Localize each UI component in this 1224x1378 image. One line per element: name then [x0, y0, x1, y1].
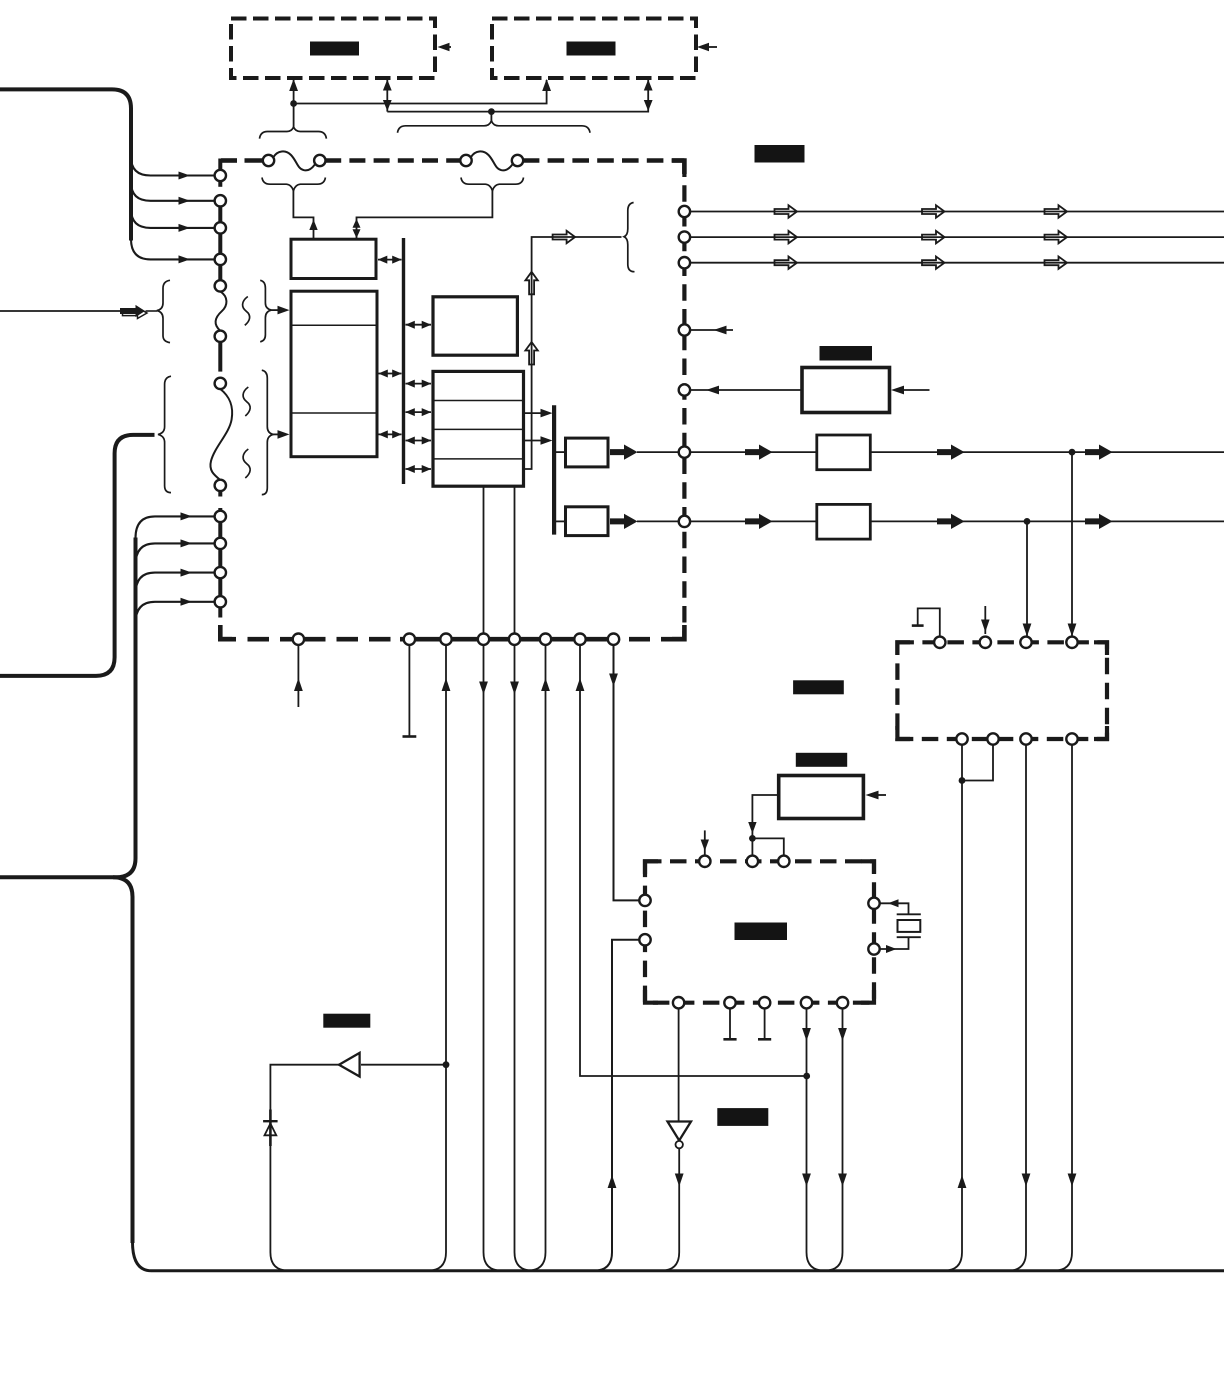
- module pin L10: [215, 538, 226, 549]
- wire M2 to output bar row3: [524, 440, 548, 442]
- hollow arrows on output line 3: [775, 257, 798, 269]
- D2 bottom pin1: [956, 733, 967, 744]
- D2 top pin2: [980, 637, 991, 648]
- connector pair 1 S-link: [274, 151, 315, 170]
- block M2: [433, 371, 524, 486]
- label D3 (redacted): [735, 923, 788, 941]
- stub arrow into R4 right side: [874, 794, 886, 796]
- connector pair2 pin a: [460, 155, 471, 166]
- dbl arrow bus-M2 row2: [406, 411, 432, 413]
- stub under module pin1: [297, 645, 299, 707]
- output line 1 (top): [690, 211, 1224, 213]
- module pin R4: [679, 324, 690, 335]
- wire stem up into BOX1: [293, 80, 295, 128]
- module pin B7: [574, 634, 585, 645]
- output bar: [552, 405, 556, 534]
- harness arrow into pin 3: [131, 209, 214, 228]
- big box bottom-right corner: [672, 625, 684, 639]
- thick arrow on line B after tap: [1085, 514, 1113, 529]
- wire pair2 to block S1: [357, 190, 493, 239]
- squiggle mark 1: [243, 297, 250, 326]
- squiggle mark 3: [243, 449, 250, 478]
- D2 top pin4: [1066, 637, 1077, 648]
- brace under connector pair 2: [461, 178, 524, 191]
- D3 corner overlays: [645, 861, 658, 874]
- dashed block D3: [645, 861, 874, 1002]
- wire right pin 5 to R1: [690, 389, 802, 391]
- wire A (node between BOX1 and BOX2): [294, 80, 547, 104]
- label group outputs (redacted): [755, 145, 805, 163]
- junction dot D2 pin1 wire: [959, 777, 966, 784]
- D3 bottom pin2: [724, 997, 735, 1008]
- block R2: [817, 435, 871, 470]
- branch to D3 top pin2: [751, 838, 753, 856]
- label R4 (redacted): [796, 753, 847, 767]
- ground stub D3 bottom pin2: [729, 1008, 731, 1038]
- label buffer (redacted): [323, 1014, 370, 1028]
- thick arrow on line A after R2: [937, 445, 965, 460]
- label inverter (redacted): [717, 1108, 768, 1126]
- label BOX2 (redacted): [567, 42, 616, 56]
- output line 3: [690, 262, 1224, 264]
- stub arrow into R1 right side: [904, 389, 930, 391]
- wire B: [387, 80, 648, 112]
- D3 bottom pin4: [801, 997, 812, 1008]
- arrowhead up into junction (pair1 feed): [309, 220, 317, 231]
- brace R3 (splits riser to 3 outputs): [624, 203, 634, 272]
- harness arrow into pin 1: [131, 157, 214, 176]
- module pin R6: [679, 446, 690, 457]
- hollow up arrow 2 on M2 riser: [525, 342, 537, 365]
- sense line pin7 to D3 drop: [580, 645, 807, 1076]
- junction dot line A: [1069, 449, 1076, 456]
- junction dot buffer tap: [443, 1061, 450, 1068]
- arrow brace R1 into S2: [271, 309, 279, 311]
- M2 divider 1: [433, 400, 524, 402]
- diode D1 through-wire: [269, 1110, 272, 1147]
- wire M2 up to output brace: [524, 237, 622, 469]
- wire module pin8 down to D3 left pin1: [614, 645, 640, 900]
- module pin R7: [679, 516, 690, 527]
- block T2: [566, 507, 609, 536]
- block T1: [566, 438, 609, 467]
- dbl arrow S2-bus upper: [379, 373, 402, 375]
- double arrow wire B to BOX2: [644, 80, 653, 91]
- wire D2 bottom pin4 to rail: [1054, 745, 1073, 1271]
- module pin L9: [215, 511, 226, 522]
- dashed block D2: [897, 642, 1107, 739]
- drop wire line B to D2: [1026, 521, 1028, 636]
- harness trunk W2 (branch to bottom rail): [113, 877, 133, 1243]
- module pin B6: [540, 634, 551, 645]
- feed wire to brace L2 (off-page lower left): [0, 435, 155, 676]
- D2 bottom pin2: [987, 733, 998, 744]
- crystal X1 wiring bottom: [880, 937, 909, 949]
- harness arrow into pin 9: [136, 516, 215, 538]
- wire module pin6 to rail: [527, 645, 546, 1271]
- junction dot node B: [488, 108, 495, 115]
- big box bottom-left corner: [220, 625, 232, 639]
- cable wave between pins 5-6: [216, 291, 227, 330]
- D3 bottom pin3: [759, 997, 770, 1008]
- dbl arrow bus-M2 row4: [406, 468, 432, 470]
- module pin B1: [293, 634, 304, 645]
- junction dot sense line: [803, 1073, 810, 1080]
- stem node B to brace: [490, 112, 492, 122]
- arrowhead up into BOX1: [289, 79, 298, 91]
- inverter bubble: [676, 1141, 683, 1148]
- label BOX1 (redacted): [310, 42, 359, 56]
- D3 left pin1: [639, 895, 650, 906]
- module pin L12: [215, 596, 226, 607]
- stub arrow into D2 pin 2: [984, 606, 986, 634]
- module pin R5: [679, 384, 690, 395]
- wire R4 out to D3 pins: [752, 795, 778, 838]
- module pin R3: [679, 257, 690, 268]
- dbl arrow bus-M2 row1: [406, 383, 432, 385]
- M2 divider 2: [433, 428, 524, 430]
- arrow brace R2 into S2: [273, 433, 279, 435]
- block M1: [433, 297, 517, 355]
- branch to D3 top pin3: [752, 838, 783, 856]
- crystal X1 wiring top: [880, 903, 909, 914]
- brace L1 (groups pins 5-6): [157, 280, 170, 342]
- buffer U1 (triangle): [339, 1053, 360, 1077]
- stub arrow into D3 top pin1: [704, 830, 706, 856]
- connector pair2 pin b: [512, 155, 523, 166]
- module pin L3: [215, 222, 226, 233]
- level flag on D2 pin 1: [918, 608, 940, 637]
- thick arrow on line B after pin: [745, 514, 773, 529]
- thick arrow T2 out: [610, 514, 638, 529]
- wire D3 bottom pin4 to rail: [807, 1008, 826, 1271]
- thick arrow T1 out: [610, 445, 638, 460]
- junction dot R4 feed: [749, 835, 756, 842]
- stub arrow into right pin 4: [690, 329, 733, 331]
- arrow into BOX1 right side: [446, 46, 451, 48]
- D3 right pin1: [868, 898, 879, 909]
- big dashed module box: bottom edge: [221, 637, 236, 642]
- big dashed module box: top edge: [221, 158, 237, 163]
- harness arrow into pin 11: [136, 573, 215, 595]
- signal line A (y=452): [690, 451, 1224, 453]
- arrowhead up on D2 pin1 rail wire: [958, 1175, 967, 1188]
- harness comb 2 trunk: [0, 538, 136, 878]
- cable wave between pins 7-8: [210, 389, 232, 480]
- module pin B2: [404, 634, 415, 645]
- hollow up arrow 1 on M2 riser: [525, 272, 537, 295]
- module pin B4: [478, 634, 489, 645]
- connector pair1 pin b: [314, 155, 325, 166]
- harness arrow into pin 2: [131, 182, 214, 201]
- brace L2 (groups pins 7-8): [158, 376, 171, 492]
- wire module pin4 to rail: [484, 645, 503, 1271]
- ground stub D3 bottom pin3: [764, 1008, 766, 1038]
- link D2 bottom pin1-pin2: [962, 745, 993, 781]
- crystal X1 top plate: [897, 913, 921, 915]
- D3 top pin2: [747, 856, 758, 867]
- harness trunk W1 (top left, off-page): [0, 89, 131, 240]
- big box top-right corner: [672, 161, 684, 175]
- D3 bottom pin5: [837, 997, 848, 1008]
- module pin B5: [509, 634, 520, 645]
- vertical bus bar: [402, 238, 405, 484]
- double arrow BOX1 to wire B: [386, 80, 388, 112]
- brace R2 (bundle into S2 lower): [262, 370, 273, 494]
- D2 bottom pin4: [1066, 733, 1077, 744]
- wire bar to T2: [554, 520, 566, 522]
- module pin L7: [215, 378, 226, 389]
- junction dot line B: [1024, 518, 1031, 525]
- thick arrow on line B after R3: [937, 514, 965, 529]
- diode D1 cathode bar: [263, 1120, 278, 1122]
- diode D1 anode triangle: [265, 1124, 277, 1136]
- crystal X1 body: [898, 920, 921, 932]
- bottom rail: [133, 1242, 1224, 1271]
- hollow arrows on output line 2: [775, 231, 798, 243]
- D2 top pin1: [934, 637, 945, 648]
- module pin R1: [679, 206, 690, 217]
- block S1: [291, 239, 376, 278]
- M2 bottom stub to pin (left): [483, 486, 485, 634]
- dbl arrow S1-bus: [378, 259, 402, 261]
- squiggle mark 2: [243, 387, 250, 416]
- harness arrow into pin 10: [136, 543, 215, 565]
- D3 top pin1: [699, 856, 710, 867]
- wire D3 left pin2 to rail: [594, 940, 640, 1271]
- inverter gate: [668, 1122, 692, 1141]
- wire D2 bottom pin1 to rail: [944, 745, 963, 1271]
- block R3: [817, 504, 871, 539]
- thick arrow on line A after pin: [745, 445, 773, 460]
- S2 divider 1: [291, 324, 377, 326]
- hollow arrows on output line 1: [775, 205, 798, 217]
- module pin L8: [215, 480, 226, 491]
- big dashed module box: right edge: [682, 161, 686, 640]
- module pin L1: [215, 170, 226, 181]
- D3 right pin2: [868, 943, 879, 954]
- dbl arrow bus-M1: [406, 324, 432, 326]
- arrowhead up into BOX2: [542, 79, 551, 91]
- wire D3 bottom pin1 to inverter: [678, 1008, 680, 1121]
- S2 divider 2: [291, 412, 377, 414]
- brace R1 (bundle into S2 upper): [260, 280, 271, 342]
- module pin L5: [215, 280, 226, 291]
- module pin B3: [440, 634, 451, 645]
- D2 corner overlays: [897, 642, 910, 655]
- module pin R2: [679, 231, 690, 242]
- harness arrow into pin 4: [131, 239, 214, 259]
- wire M2 to output bar row2: [524, 412, 548, 414]
- block R4: [779, 776, 864, 819]
- connector pair1 pin a: [263, 155, 274, 166]
- hollow right arrow on M2 riser top: [553, 231, 576, 243]
- module pin L6: [215, 331, 226, 342]
- termination stub under module pin2: [408, 645, 410, 737]
- label D2 (redacted): [793, 680, 844, 694]
- dbl arrow S2-bus lower: [379, 433, 402, 435]
- buffer output wire to diode: [270, 1065, 339, 1115]
- arrow into BOX2 right side: [706, 46, 717, 48]
- drop wire line A to D2: [1071, 452, 1073, 636]
- module pin L2: [215, 195, 226, 206]
- wire module pin3 to rail (buffer tap): [428, 645, 447, 1271]
- D2 bottom pin3: [1020, 733, 1031, 744]
- harness arrow into pin 12: [136, 602, 215, 624]
- input line with thick arrow into brace L1: [0, 310, 120, 312]
- thick arrow on line A after tap: [1085, 445, 1113, 460]
- module pin L4: [215, 254, 226, 265]
- buffer U1 input wire: [361, 1064, 446, 1066]
- D2 top pin3: [1020, 637, 1031, 648]
- block S2: [291, 291, 377, 457]
- wire D3 bottom pin5 to rail: [824, 1008, 843, 1271]
- D3 left pin2: [639, 934, 650, 945]
- dashed block BOX2 (top right, redacted label): [492, 19, 696, 79]
- connector pair 2 S-link: [471, 151, 512, 170]
- module pin L11: [215, 567, 226, 578]
- brace over connector pair 2: [398, 121, 591, 133]
- brace under connector pair 1: [262, 178, 325, 191]
- double arrowheads on pair2 feed: [353, 219, 361, 228]
- M2 bottom stub to pin (right): [514, 486, 516, 634]
- brace over connector pair 1: [260, 127, 327, 139]
- inverter output to rail: [661, 1149, 680, 1271]
- junction dot node A: [290, 100, 297, 107]
- dashed block BOX1 (top left, redacted label): [231, 19, 435, 79]
- M2 divider 3: [433, 458, 524, 460]
- diode D1 wire to rail: [270, 1135, 289, 1271]
- block R1: [802, 368, 890, 413]
- D3 bottom pin1: [673, 997, 684, 1008]
- output line 2: [690, 236, 1224, 238]
- wire D2 bottom pin3 to rail: [1008, 745, 1027, 1271]
- crystal X1 bottom plate: [897, 936, 921, 938]
- wire bar to T1: [554, 451, 566, 453]
- wire pair1 to block S1: [293, 190, 313, 239]
- wire module pin5 to rail: [515, 645, 534, 1271]
- label R1 (redacted): [820, 346, 873, 361]
- D3 top pin3: [778, 856, 789, 867]
- big dashed module box: left edge segments: [218, 159, 222, 187]
- signal line B (y=521): [690, 520, 1224, 522]
- dbl arrow bus-M2 row3: [406, 440, 432, 442]
- module pin B8: [608, 634, 619, 645]
